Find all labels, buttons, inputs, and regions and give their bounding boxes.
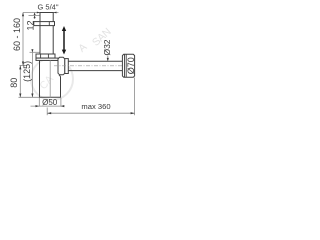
dimension max 360 xyxy=(46,108,48,116)
svg-text:(125): (125) xyxy=(22,61,32,82)
dimension Ø50 xyxy=(38,98,40,107)
adjustability double arrow xyxy=(62,26,66,55)
cup right chamfer xyxy=(59,75,61,77)
end nut xyxy=(122,54,134,77)
svg-text:G 5/4": G 5/4" xyxy=(37,3,58,12)
node: G5/4 right arrow xyxy=(53,12,56,14)
svg-text:Ø32: Ø32 xyxy=(102,39,112,55)
cup body xyxy=(39,60,41,97)
wire: bottom ext line y=97.3 xyxy=(19,96,40,98)
outlet ring xyxy=(65,59,69,74)
wire: centerline tick left xyxy=(20,64,28,66)
dimension 12 line xyxy=(34,13,36,20)
svg-text:max 360: max 360 xyxy=(81,102,110,111)
tube: vertical inlet pipe xyxy=(39,13,41,54)
dimension 60-160 line xyxy=(22,13,24,66)
watermark circle xyxy=(31,58,73,100)
upper nut (flange) xyxy=(34,22,55,26)
wire: G5/4 dimension line y=12.5 xyxy=(23,12,59,14)
pipe centerline xyxy=(54,65,122,67)
node: G5/4 left arrow xyxy=(37,12,40,14)
svg-text:Ø70: Ø70 xyxy=(126,57,136,74)
wire: ext line y=15.4 xyxy=(29,14,41,16)
dimension (125) line xyxy=(31,49,33,97)
svg-text:Ø50: Ø50 xyxy=(42,98,58,107)
svg-text:80: 80 xyxy=(9,78,19,88)
pipe horizontal xyxy=(68,60,122,62)
wire: (125) top ext line xyxy=(30,51,41,53)
cup inner axis line xyxy=(49,60,51,97)
trap top nut xyxy=(36,54,55,58)
outlet bell nut xyxy=(58,57,65,75)
dimension 80 line xyxy=(19,66,21,98)
svg-text:60 - 160: 60 - 160 xyxy=(12,18,22,51)
